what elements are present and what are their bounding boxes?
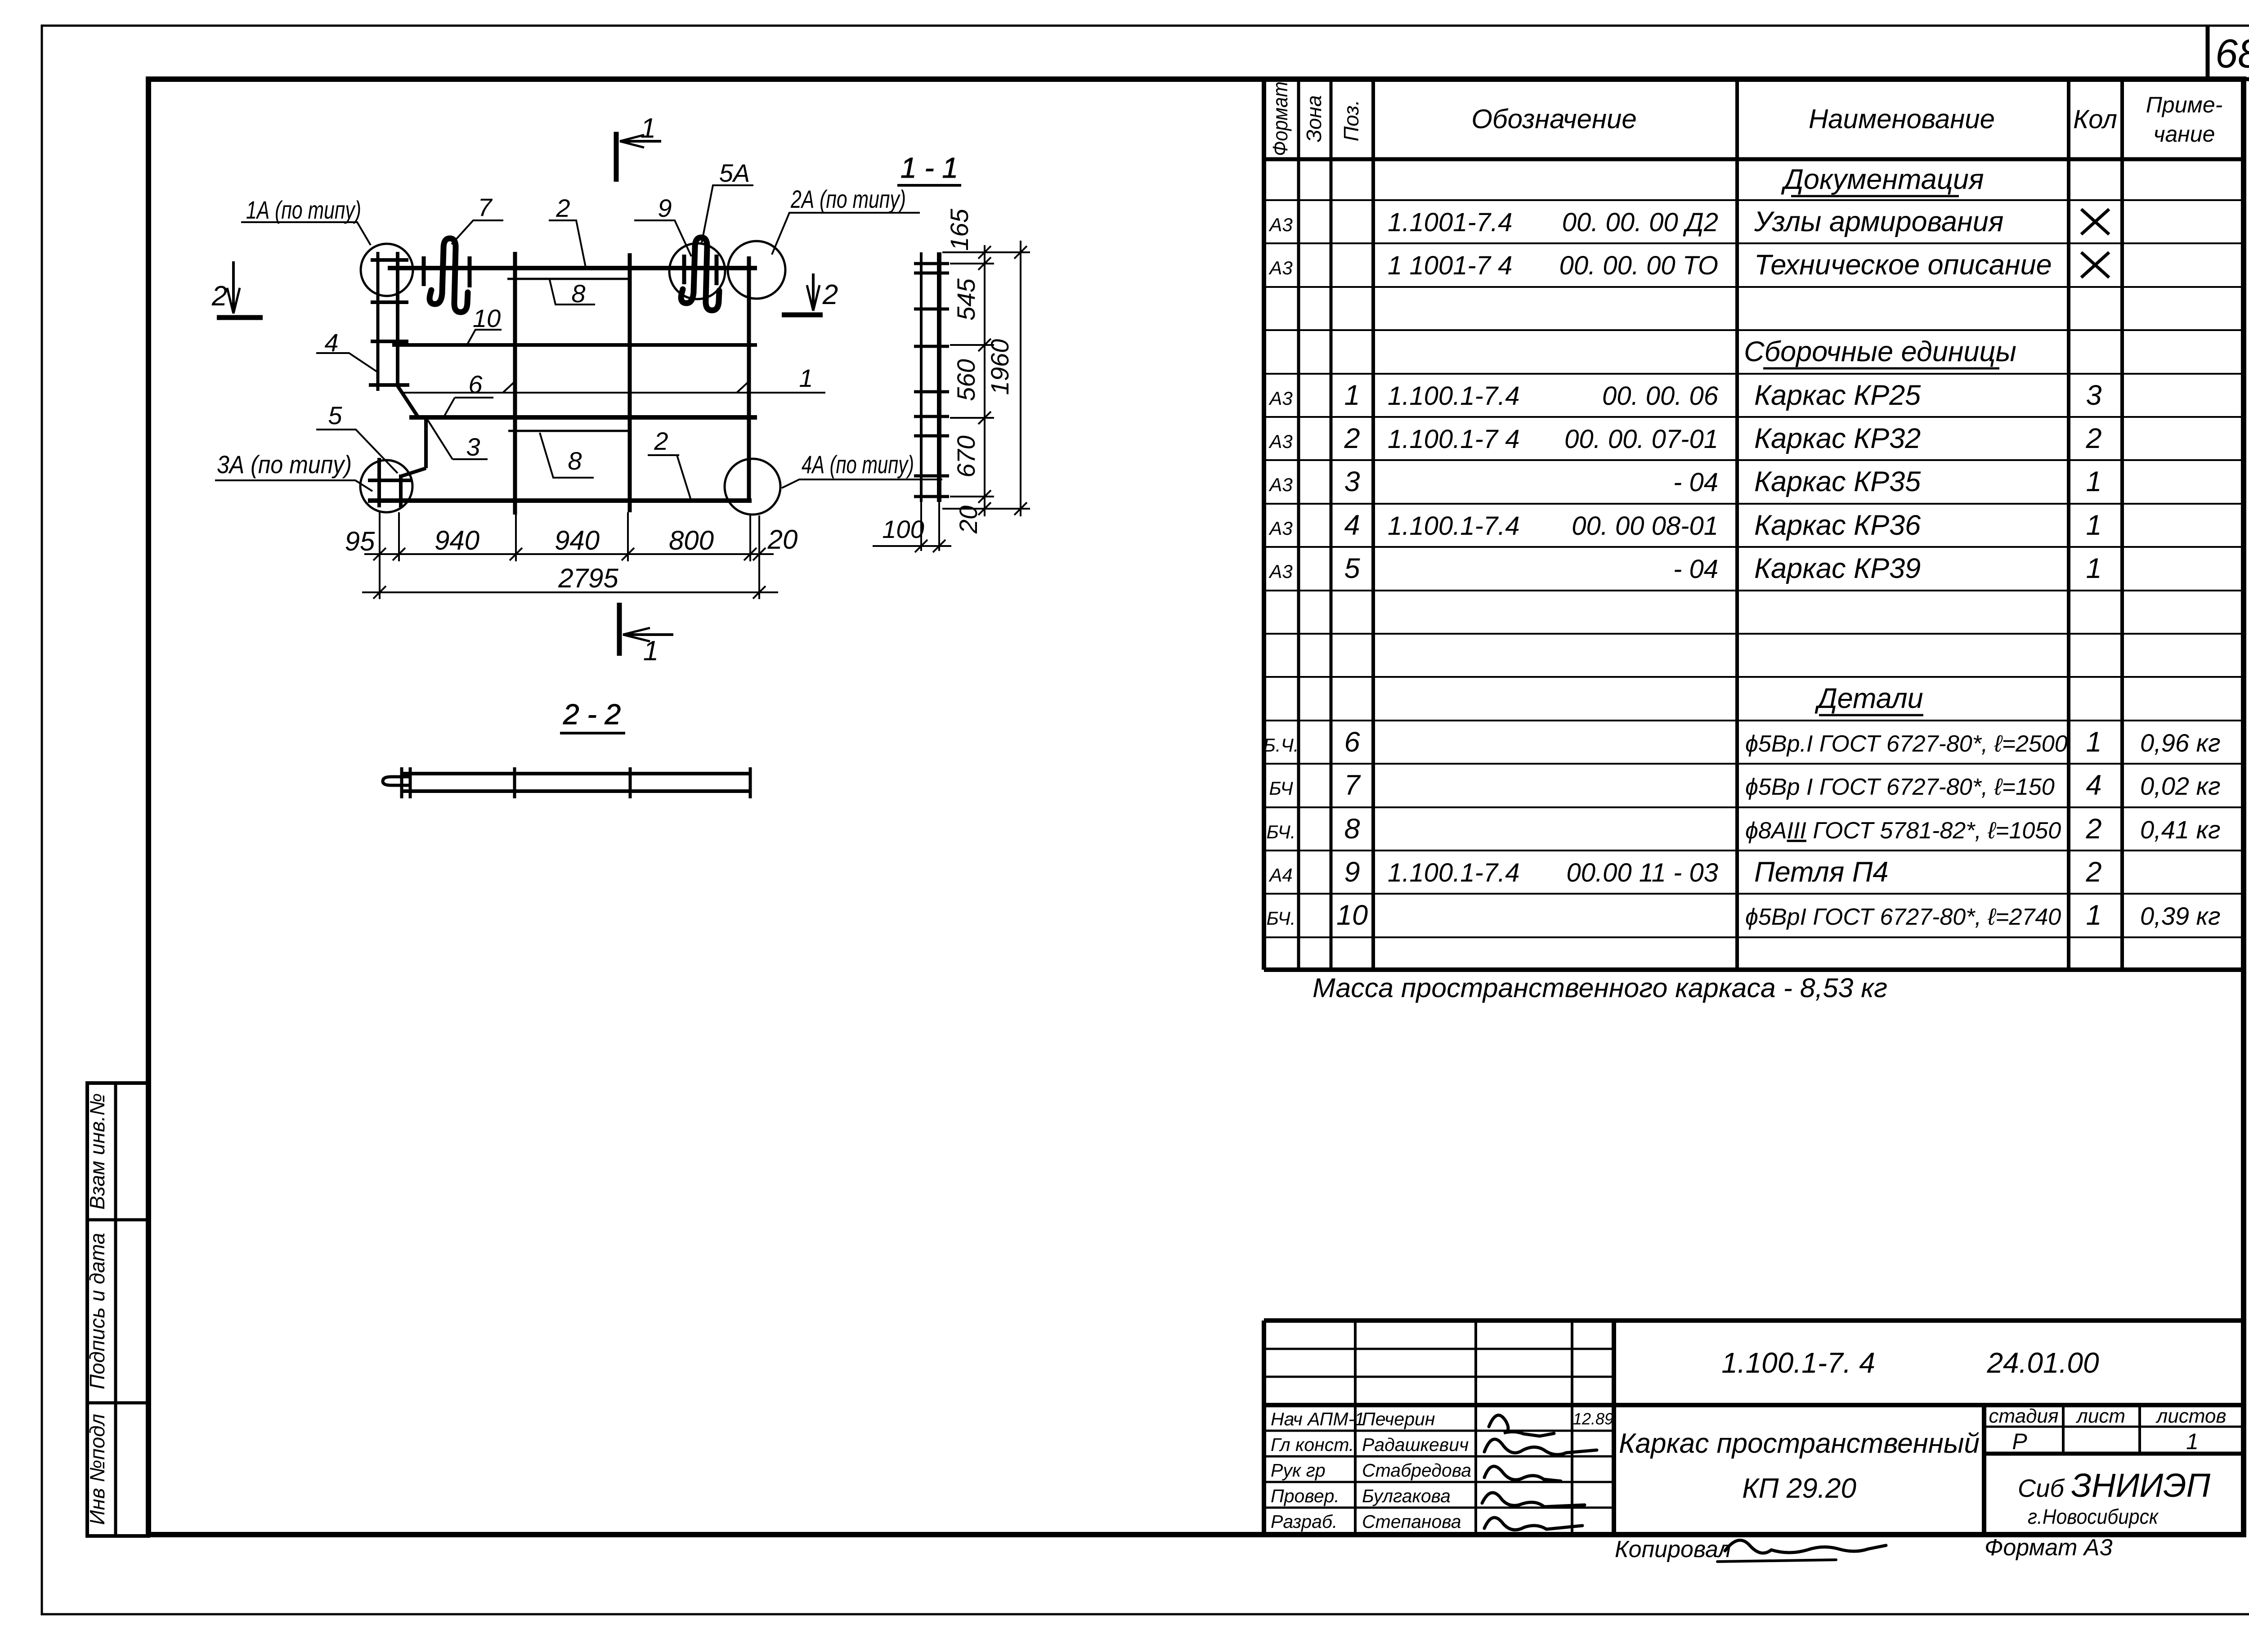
s11 dim2 tick bottom	[1014, 502, 1027, 515]
svg-text:Каркас КР32: Каркас КР32	[1754, 423, 1921, 454]
svg-text:1960: 1960	[986, 339, 1014, 395]
detail circle 4A	[725, 459, 780, 515]
table vertical naimenovanie col	[2067, 79, 2070, 970]
title block left edge	[1262, 1321, 1266, 1536]
label 3 leader	[428, 420, 488, 459]
title block signature row y3181	[1264, 1430, 1614, 1432]
svg-text:68: 68	[2215, 31, 2249, 76]
svg-text:0,02 кг: 0,02 кг	[2140, 772, 2221, 800]
svg-text:стадия: стадия	[1989, 1405, 2059, 1427]
s11 rung y586	[914, 262, 949, 265]
svg-text:5А: 5А	[719, 159, 750, 187]
page number box	[2206, 26, 2210, 79]
title block main separator	[1264, 1403, 2245, 1407]
svg-text:1 - 1: 1 - 1	[900, 152, 958, 184]
label 8 lower leader	[540, 433, 594, 478]
s11 rung y871	[914, 390, 949, 394]
section mark 1 bottom bar	[617, 603, 622, 656]
svg-text:2: 2	[2085, 813, 2101, 845]
svg-text:1.100.1-7.4: 1.100.1-7.4	[1388, 858, 1519, 887]
svg-text:20: 20	[954, 506, 982, 534]
label 8 upper leader	[550, 280, 595, 304]
title block signature row y3238	[1264, 1455, 1614, 1458]
lifting loop 7 tick right	[468, 256, 472, 287]
svg-text:Копировал: Копировал	[1615, 1536, 1731, 1562]
spec row 7	[1269, 770, 2220, 801]
spec row Техническое описание	[1268, 249, 2109, 281]
svg-text:Зона: Зона	[1302, 95, 1326, 143]
rebar 10	[392, 343, 757, 347]
table row line y445	[1264, 199, 2245, 201]
svg-text:12.89: 12.89	[1573, 1410, 1613, 1428]
svg-text:Поз.: Поз.	[1340, 100, 1363, 142]
svg-text:Гл конст.: Гл конст.	[1271, 1434, 1354, 1455]
section mark 2 left arrow	[232, 261, 235, 312]
svg-text:0,39 кг: 0,39 кг	[2140, 902, 2221, 930]
table row line y1987	[1264, 893, 2245, 895]
svg-text:3: 3	[2086, 380, 2101, 411]
s11 dim tick y767	[978, 339, 991, 351]
table row line y541	[1264, 242, 2245, 244]
dim line 1	[364, 553, 774, 555]
svg-text:чание: чание	[2154, 121, 2215, 147]
svg-text:1: 1	[2086, 726, 2101, 758]
svg-text:ϕ8АIII ГОСТ 5781-82*, ℓ=105: ϕ8АIII ГОСТ 5781-82*, ℓ=1050	[1745, 818, 2061, 844]
title block texts	[1271, 1409, 1613, 1532]
label 2A leader	[772, 213, 920, 255]
svg-text:4: 4	[324, 328, 338, 357]
svg-text:БЧ.: БЧ.	[1267, 908, 1296, 929]
svg-text:1: 1	[2186, 1429, 2199, 1454]
stadia col divider	[2062, 1405, 2065, 1454]
svg-text:1: 1	[641, 113, 656, 144]
s11 rung y607	[914, 272, 949, 275]
extension line x1147	[515, 515, 517, 561]
s11 rung y926	[914, 415, 949, 418]
lifting loop 9 left hook	[681, 289, 694, 303]
svg-text:г.Новосибирск: г.Новосибирск	[2028, 1505, 2159, 1528]
section mark 1 top bar	[614, 132, 619, 182]
table row line y1023	[1264, 459, 2245, 461]
svg-text:ϕ5Вр I ГОСТ 6727-80*, ℓ=150: ϕ5Вр I ГОСТ 6727-80*, ℓ=150	[1745, 774, 2055, 800]
svg-text:20: 20	[767, 524, 798, 555]
s11 100 tick left	[915, 540, 927, 552]
section mark 2 left arrowhead	[227, 288, 240, 313]
corner rung horizontal	[368, 479, 412, 482]
plan dimensions	[362, 512, 778, 599]
svg-text:А3: А3	[1268, 431, 1292, 452]
s11 ext top	[942, 251, 1030, 253]
s11 rung y687	[914, 308, 949, 311]
step vertical low	[399, 475, 403, 507]
svg-text:2795: 2795	[558, 563, 618, 593]
s11 dim2 tick top	[1014, 246, 1027, 259]
svg-text:ϕ5Вр.I ГОСТ 6727-80*, ℓ=250: ϕ5Вр.I ГОСТ 6727-80*, ℓ=2500	[1745, 731, 2068, 757]
svg-text:1.1001-7.4: 1.1001-7.4	[1388, 208, 1512, 237]
svg-text:670: 670	[952, 435, 980, 477]
callout labels	[215, 185, 942, 491]
signatures	[1482, 1415, 1886, 1562]
spec row 4	[1268, 510, 2101, 541]
svg-text:24.01.00: 24.01.00	[1986, 1347, 2099, 1379]
svg-text:Каркас КР36: Каркас КР36	[1754, 510, 1921, 541]
section mark 2 right bar	[782, 313, 823, 318]
lifting loop 9 arch	[694, 237, 707, 300]
svg-text:Техническое описание: Техническое описание	[1754, 249, 2052, 281]
svg-text:2: 2	[1344, 423, 1360, 454]
svg-text:2: 2	[2085, 423, 2101, 454]
svg-text:165: 165	[945, 208, 973, 251]
table vertical left edge	[1262, 79, 1266, 970]
s11 rung y969	[914, 434, 949, 438]
middle vertical 2	[628, 253, 632, 512]
title block	[1264, 1321, 2245, 1536]
s11 100 dim line	[873, 545, 951, 547]
table row line y1409	[1264, 633, 2245, 635]
label 2 leader	[549, 220, 586, 267]
svg-text:1: 1	[2086, 553, 2101, 584]
table row line y1891	[1264, 850, 2245, 851]
spec row 3	[1268, 466, 2101, 497]
svg-text:Стабредова: Стабредова	[1362, 1460, 1471, 1481]
svg-text:00. 00. 07-01: 00. 00. 07-01	[1564, 425, 1718, 454]
rebar 1 thin	[401, 392, 825, 394]
kopiroval signature	[1725, 1540, 1886, 1553]
signature 4	[1482, 1493, 1585, 1507]
table row line y927	[1264, 416, 2245, 418]
svg-text:545: 545	[952, 278, 980, 320]
kopiroval underline	[1717, 1560, 1836, 1562]
svg-text:Кол: Кол	[2073, 105, 2117, 134]
svg-text:2: 2	[822, 279, 838, 310]
step diagonal low	[401, 468, 426, 476]
svg-text:3А (по типу): 3А (по типу)	[217, 450, 352, 479]
SECTION 2-2	[383, 698, 752, 798]
title block signature row y3295	[1264, 1481, 1614, 1483]
right chord vertical	[747, 256, 751, 501]
label 5A leader	[702, 185, 753, 243]
left rail inner	[396, 252, 399, 386]
svg-text:Взам инв.№: Взам инв.№	[85, 1093, 109, 1210]
svg-text:6: 6	[1344, 726, 1360, 758]
PLAN VIEW	[360, 237, 825, 515]
s22 rung x1668	[749, 767, 752, 798]
extension line x844	[379, 512, 381, 599]
svg-text:лист: лист	[2075, 1405, 2125, 1427]
dim tick 1688	[753, 548, 766, 560]
specification table grid	[1264, 79, 2245, 970]
label 4A leader	[782, 479, 942, 488]
rung 1	[371, 258, 408, 262]
table vertical kol col	[2120, 79, 2124, 970]
rebar 8 lower	[508, 430, 628, 432]
svg-text:Приме-: Приме-	[2146, 92, 2223, 117]
s11 100 ext right	[938, 502, 940, 551]
section mark 2 right arrowhead	[807, 285, 820, 311]
lifting loop 7 left hook	[430, 290, 442, 304]
svg-text:Подпись и дата: Подпись и дата	[85, 1233, 109, 1389]
dim2 tick right	[753, 586, 766, 599]
page number box bottom	[2208, 77, 2249, 81]
svg-text:Радашкевич: Радашкевич	[1362, 1434, 1469, 1455]
top chord rebar 2	[388, 266, 757, 270]
svg-text:9: 9	[658, 194, 672, 222]
rung 3	[371, 340, 408, 343]
title block vertical stadia section	[1982, 1405, 1986, 1536]
title block row line	[1264, 1348, 1614, 1350]
title block row line	[1264, 1376, 1614, 1378]
svg-text:1: 1	[2086, 510, 2101, 541]
svg-text:Формат А3: Формат А3	[1985, 1535, 2113, 1561]
table row line y734	[1264, 329, 2245, 331]
s11 ext y586	[950, 263, 994, 264]
svg-text:00. 00. 06: 00. 00. 06	[1602, 381, 1719, 411]
s11 dim tick y1131	[978, 502, 991, 515]
lifting loop 7 right hook	[454, 292, 468, 312]
svg-text:4А (по типу): 4А (по типу)	[802, 450, 914, 479]
rebar 1 break tick right	[737, 381, 749, 393]
table header texts	[1268, 81, 2222, 156]
svg-text:листов: листов	[2155, 1405, 2227, 1427]
table row line y1602	[1264, 720, 2245, 721]
svg-text:1: 1	[799, 364, 813, 392]
svg-text:8: 8	[571, 279, 585, 308]
svg-text:А3: А3	[1268, 474, 1292, 495]
label 2 lower leader	[648, 455, 690, 498]
lifting loop 9 right hook	[706, 291, 719, 310]
middle vertical 1	[513, 252, 517, 515]
svg-text:1.100.1-7 4: 1.100.1-7 4	[1388, 425, 1519, 454]
title block vertical x3495	[1571, 1321, 1573, 1536]
strip divider column	[114, 1083, 117, 1536]
spec row 10	[1267, 900, 2221, 931]
table row line y831	[1264, 373, 2245, 375]
svg-text:Масса пространственного ка: Масса пространственного каркаса - 8,53 к…	[1313, 973, 1887, 1003]
svg-text:Узлы армирования: Узлы армирования	[1754, 206, 2003, 237]
signature 1	[1489, 1415, 1554, 1436]
svg-text:Сборочные единицы: Сборочные единицы	[1744, 336, 2016, 367]
title block vertical x3013	[1354, 1321, 1357, 1536]
svg-text:БЧ: БЧ	[1269, 778, 1293, 799]
spec row 2	[1268, 423, 2101, 454]
s22 rung x893	[400, 767, 403, 798]
strip divider 1	[87, 1218, 148, 1222]
svg-text:А4: А4	[1268, 864, 1292, 886]
svg-text:- 04: - 04	[1673, 555, 1718, 584]
title block top edge	[1264, 1318, 2245, 1323]
title block vertical signatures/date	[1612, 1321, 1616, 1536]
svg-text:3: 3	[1344, 466, 1360, 497]
section 2-2 title underline	[560, 732, 625, 734]
svg-text:00. 00. 00 ТО: 00. 00. 00 ТО	[1559, 251, 1718, 280]
extension line x887	[398, 512, 400, 561]
left rail step diagonal	[398, 386, 417, 416]
spec row 5	[1268, 553, 2101, 584]
svg-text:5: 5	[1344, 553, 1360, 584]
svg-text:А3: А3	[1268, 518, 1292, 539]
svg-text:1: 1	[2086, 466, 2101, 497]
extension line x1396	[627, 512, 629, 561]
section 1-1 title underline	[897, 184, 961, 187]
list col divider	[2138, 1405, 2141, 1454]
signature 3	[1484, 1466, 1561, 1481]
svg-text:Каркас КР35: Каркас КР35	[1754, 466, 1921, 497]
table row line y1698	[1264, 763, 2245, 765]
svg-text:Р: Р	[2012, 1429, 2027, 1454]
label 3A leader	[215, 480, 372, 491]
svg-text:4: 4	[2086, 770, 2101, 801]
svg-text:1А (по типу): 1А (по типу)	[246, 196, 361, 224]
svg-text:Сиб ЗНИИЭП: Сиб ЗНИИЭП	[2018, 1467, 2211, 1504]
svg-text:ϕ5ВрI ГОСТ 6727-80*, ℓ=2740: ϕ5ВрI ГОСТ 6727-80*, ℓ=2740	[1745, 904, 2061, 930]
svg-text:Нач АПМ-1: Нач АПМ-1	[1271, 1409, 1365, 1429]
s11 rung y1104	[914, 495, 949, 498]
svg-text:1: 1	[643, 636, 659, 667]
dim tick 1147	[510, 548, 522, 560]
svg-text:Наименование: Наименование	[1809, 104, 1995, 134]
svg-text:10: 10	[1336, 900, 1368, 931]
svg-text:Документация: Документация	[1781, 164, 1984, 195]
detail circle 3A	[360, 460, 412, 512]
section marks	[217, 132, 823, 656]
left margin strip	[87, 1083, 148, 1536]
svg-text:1.100.1-7.4: 1.100.1-7.4	[1388, 511, 1519, 541]
title block vertical x3281	[1474, 1321, 1477, 1536]
lifting loop 9 tick left	[682, 255, 686, 284]
table vertical poz col	[1371, 79, 1375, 970]
label 4 leader	[316, 353, 377, 372]
s22 rung x1144	[513, 767, 516, 798]
stadia header	[1989, 1405, 2227, 1454]
svg-text:00. 00. 00 Д2: 00. 00. 00 Д2	[1562, 208, 1718, 237]
label 10 leader	[466, 330, 502, 346]
s11 ext bottom	[942, 508, 1030, 510]
svg-text:А3: А3	[1268, 561, 1292, 582]
s11 dim tick y586	[978, 257, 991, 270]
table row line y1505	[1264, 676, 2245, 678]
s11 100 tick right	[933, 540, 945, 552]
left rail outer	[376, 252, 380, 391]
extension line x1688	[758, 515, 760, 599]
step vertical rebar 5	[424, 417, 428, 468]
svg-text:1.100.1-7. 4: 1.100.1-7. 4	[1721, 1347, 1875, 1379]
svg-text:2 - 2: 2 - 2	[563, 698, 621, 730]
s11 dim line 2	[1020, 241, 1021, 516]
svg-text:10: 10	[473, 304, 501, 332]
dim tick 887	[393, 548, 405, 560]
section mark 1 bottom arrow	[623, 633, 673, 636]
svg-text:800: 800	[669, 525, 714, 555]
svg-text:Каркас пространственный: Каркас пространственный	[1619, 1428, 1980, 1459]
svg-text:1.100.1-7.4: 1.100.1-7.4	[1388, 381, 1519, 411]
svg-text:2А (по типу): 2А (по типу)	[790, 185, 906, 213]
s22 rung x1401	[629, 767, 632, 798]
table row line y638	[1264, 286, 2245, 288]
corner rung vertical	[377, 458, 381, 507]
s11 ext y929	[950, 417, 994, 419]
lifting loop 7 arch	[442, 238, 456, 302]
svg-text:3: 3	[466, 433, 480, 461]
s11 dim tick y561	[978, 246, 991, 259]
svg-text:1: 1	[2086, 900, 2101, 931]
label 1A leader	[241, 222, 371, 245]
section mark 2 left bar	[217, 315, 263, 320]
spec row Узлы армирования	[1268, 206, 2109, 237]
svg-text:Степанова: Степанова	[1362, 1511, 1461, 1532]
s22 left hook	[383, 777, 410, 785]
svg-text:Булгакова: Булгакова	[1362, 1486, 1451, 1506]
table vertical format col	[1297, 79, 1300, 970]
s11 dim line 1	[984, 245, 986, 516]
svg-text:2: 2	[2085, 856, 2101, 888]
svg-text:Провер.: Провер.	[1271, 1486, 1340, 1506]
detail circle 5A	[669, 243, 725, 299]
svg-text:КП 29.20: КП 29.20	[1742, 1473, 1856, 1504]
rung 4	[369, 383, 409, 387]
s11 ext y767	[950, 344, 994, 346]
lifting loop 9 tick right	[715, 255, 719, 285]
svg-text:9: 9	[1344, 856, 1360, 888]
s11 rung y770	[914, 345, 949, 348]
section mark 1 top arrow	[620, 140, 661, 143]
table vertical zona col	[1330, 79, 1333, 970]
svg-text:0,41 кг: 0,41 кг	[2140, 815, 2221, 844]
detail circle 2A	[728, 241, 785, 299]
rebar 6	[409, 415, 757, 420]
svg-text:7: 7	[1344, 770, 1361, 801]
svg-text:Рук гр: Рук гр	[1271, 1460, 1326, 1481]
svg-text:8: 8	[568, 447, 582, 475]
spec row 1	[1268, 380, 2101, 411]
table row line y1795	[1264, 806, 2245, 808]
table row line y1313	[1264, 590, 2245, 591]
svg-text:6: 6	[468, 370, 483, 398]
svg-text:А3: А3	[1268, 257, 1292, 278]
rebar 8 upper	[507, 278, 628, 280]
spec row 6	[1263, 726, 2221, 758]
svg-text:00.00 11 - 03: 00.00 11 - 03	[1566, 858, 1718, 887]
label 9 leader	[634, 220, 691, 256]
svg-text:00. 00 08-01: 00. 00 08-01	[1572, 511, 1718, 541]
spec row 9	[1268, 856, 2101, 888]
signature 5	[1484, 1518, 1582, 1530]
svg-text:Печерин: Печерин	[1362, 1409, 1435, 1429]
stadia header row line	[1984, 1426, 2245, 1428]
signature 2	[1484, 1439, 1597, 1455]
svg-text:Разраб.: Разраб.	[1271, 1511, 1337, 1532]
label 5 leader	[316, 430, 398, 473]
table header separator	[1264, 157, 2245, 161]
s22 rung x912	[409, 767, 412, 798]
spec row 8	[1267, 813, 2221, 845]
svg-text:1: 1	[1344, 380, 1360, 411]
dim line 2	[362, 591, 778, 593]
svg-text:Каркас КР39: Каркас КР39	[1754, 553, 1921, 584]
dim2 tick left	[373, 586, 386, 599]
svg-text:А3: А3	[1268, 388, 1292, 409]
svg-text:Обозначение: Обозначение	[1471, 104, 1637, 134]
svg-text:2: 2	[654, 427, 668, 455]
detail circle 1A	[361, 244, 413, 296]
svg-text:А3: А3	[1268, 214, 1292, 235]
stadia value row line	[1984, 1452, 2245, 1456]
dim tick 1668	[744, 548, 757, 560]
lifting loop 7 tick left	[422, 256, 426, 286]
svg-text:Каркас КР25: Каркас КР25	[1754, 380, 1921, 411]
svg-text:1 1001-7 4: 1 1001-7 4	[1388, 251, 1512, 280]
section mark 1 bottom arrowhead	[623, 628, 650, 641]
dim tick 844	[373, 548, 386, 560]
